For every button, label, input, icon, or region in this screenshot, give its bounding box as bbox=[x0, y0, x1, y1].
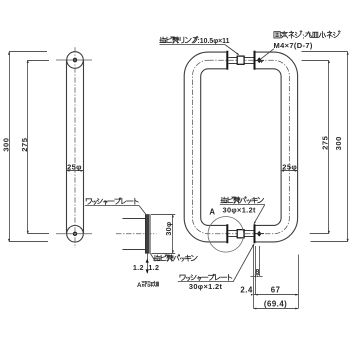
svg-text:30φ×1.2t: 30φ×1.2t bbox=[223, 205, 257, 214]
svg-text:A: A bbox=[209, 207, 215, 216]
svg-text:(69.4): (69.4) bbox=[264, 299, 287, 308]
svg-text:275: 275 bbox=[20, 137, 29, 152]
svg-text:1.2: 1.2 bbox=[133, 263, 144, 272]
svg-text:300: 300 bbox=[334, 136, 343, 150]
svg-text:2.4: 2.4 bbox=[240, 286, 253, 295]
svg-text:30φ: 30φ bbox=[164, 222, 173, 236]
svg-text:67: 67 bbox=[271, 286, 281, 295]
svg-text::: : bbox=[302, 33, 304, 40]
svg-text:300: 300 bbox=[1, 137, 10, 151]
svg-text:25φ: 25φ bbox=[282, 162, 297, 171]
svg-text:M4×7(D-7): M4×7(D-7) bbox=[274, 41, 313, 50]
svg-text:A: A bbox=[137, 282, 142, 289]
svg-text:30φ×1.2t: 30φ×1.2t bbox=[189, 282, 223, 291]
svg-text:1.2: 1.2 bbox=[148, 263, 159, 272]
svg-text:25φ: 25φ bbox=[67, 162, 82, 171]
svg-text:275: 275 bbox=[320, 135, 329, 150]
